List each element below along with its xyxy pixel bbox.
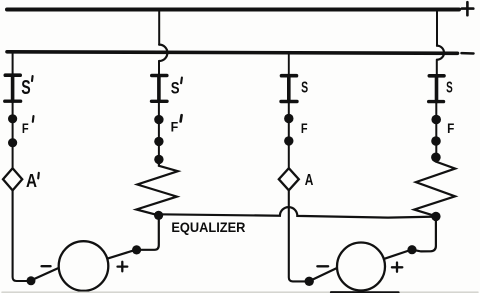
svg-text:S: S	[446, 80, 453, 97]
svg-text:A: A	[305, 172, 314, 189]
svg-text:F: F	[301, 121, 308, 136]
svg-text:S: S	[21, 77, 30, 99]
svg-text:S: S	[301, 80, 308, 97]
svg-text:A: A	[26, 171, 37, 191]
svg-text:EQUALIZER: EQUALIZER	[171, 219, 245, 235]
svg-text:F: F	[171, 119, 179, 135]
svg-text:F: F	[447, 121, 454, 136]
svg-text:S: S	[171, 78, 180, 97]
svg-text:F: F	[22, 120, 29, 136]
